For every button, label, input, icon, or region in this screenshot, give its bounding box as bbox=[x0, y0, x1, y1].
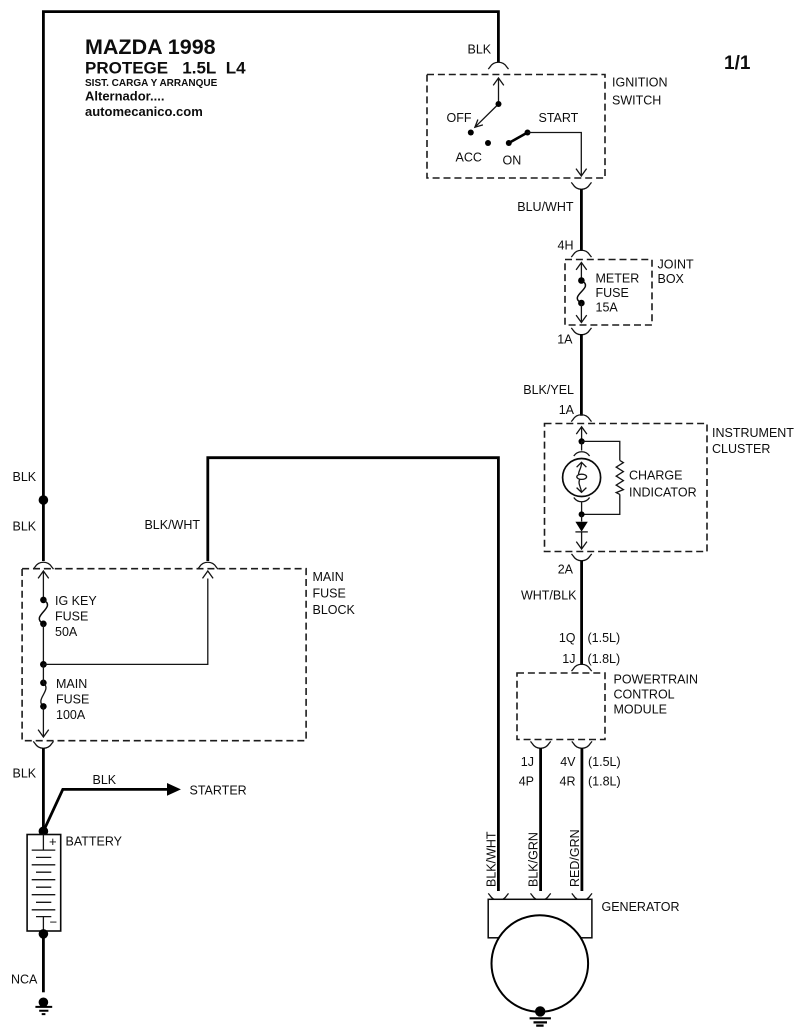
svg-text:JOINT: JOINT bbox=[658, 258, 694, 272]
meter fuse element bbox=[578, 277, 585, 284]
cluster arrow up bbox=[576, 427, 587, 442]
svg-text:RED/GRN: RED/GRN bbox=[568, 829, 582, 887]
svg-text:FUSE: FUSE bbox=[56, 693, 89, 707]
svg-text:(1.5L): (1.5L) bbox=[588, 755, 621, 769]
connector cap above joint box bbox=[571, 250, 591, 257]
connector cap above instrument cluster bbox=[571, 415, 591, 422]
svg-text:NCA: NCA bbox=[11, 973, 38, 987]
main fuse block box bbox=[22, 569, 306, 741]
bulb circle bbox=[563, 459, 601, 497]
wire branch to resistor bbox=[582, 441, 620, 514]
node junction dot fuse block bbox=[40, 661, 47, 668]
connector cup generator BLK/GRN bbox=[531, 893, 551, 900]
connector cup below PCM left bbox=[531, 741, 551, 748]
connector cup below fuse block bbox=[33, 741, 53, 748]
svg-text:IG KEY: IG KEY bbox=[55, 594, 97, 608]
svg-text:2A: 2A bbox=[558, 563, 574, 577]
diode bbox=[581, 514, 583, 521]
ground generator bbox=[535, 1006, 545, 1016]
svg-text:(1.8L): (1.8L) bbox=[588, 775, 621, 789]
node junction dot on left BLK wire bbox=[39, 495, 49, 505]
connector cap above fuse block right bbox=[198, 562, 218, 569]
switch blade ON to START bbox=[509, 133, 528, 144]
wire BLK from ignition switch around top-left down to main fuse block bbox=[43, 12, 498, 561]
wire to starter with arrow bbox=[43, 789, 168, 831]
connector cap above fuse block left bbox=[33, 562, 53, 569]
svg-text:OFF: OFF bbox=[447, 111, 472, 125]
connector cap above ignition switch bbox=[488, 62, 508, 69]
joint box arrow up bbox=[576, 263, 587, 281]
svg-text:START: START bbox=[539, 111, 579, 125]
contact dot ACC bbox=[485, 140, 491, 146]
svg-text:+: + bbox=[49, 834, 57, 849]
svg-text:MAIN: MAIN bbox=[56, 677, 87, 691]
svg-text:automecanico.com: automecanico.com bbox=[85, 104, 203, 119]
svg-text:1A: 1A bbox=[557, 333, 573, 347]
svg-text:GENERATOR: GENERATOR bbox=[602, 900, 680, 914]
connector cup below PCM right bbox=[572, 741, 592, 748]
bulb filament bbox=[577, 462, 587, 492]
joint box bbox=[565, 260, 652, 326]
wire BLK/WHT from fuse block to generator bbox=[208, 458, 499, 891]
wire BLK/YEL bbox=[580, 334, 583, 416]
svg-text:CONTROL: CONTROL bbox=[614, 688, 675, 702]
branch to BLK/WHT output bbox=[43, 571, 213, 664]
svg-text:1J: 1J bbox=[562, 652, 575, 666]
svg-text:SWITCH: SWITCH bbox=[612, 94, 661, 108]
svg-text:BOX: BOX bbox=[658, 272, 685, 286]
svg-text:MAIN: MAIN bbox=[313, 570, 344, 584]
battery internal plates bbox=[32, 835, 56, 932]
joint box arrow down bbox=[576, 303, 587, 323]
ig key fuse element bbox=[40, 597, 47, 604]
contact dot START bbox=[525, 130, 531, 136]
svg-text:4P: 4P bbox=[519, 775, 534, 789]
bulb top lead and socket cap bbox=[574, 441, 590, 456]
svg-text:FUSE: FUSE bbox=[55, 610, 88, 624]
cluster arrow down bbox=[576, 532, 587, 549]
svg-text:SIST. CARGA Y ARRANQUE: SIST. CARGA Y ARRANQUE bbox=[85, 78, 218, 89]
svg-text:BLK/YEL: BLK/YEL bbox=[523, 383, 574, 397]
generator circle bbox=[492, 915, 589, 1012]
svg-text:FUSE: FUSE bbox=[596, 286, 629, 300]
fuse block arrow up left bbox=[38, 571, 49, 600]
bulb bottom socket cup bbox=[574, 498, 590, 514]
connector cup below joint box bbox=[571, 328, 591, 335]
wire START to box bottom with arrow bbox=[528, 133, 587, 177]
svg-text:ACC: ACC bbox=[456, 151, 482, 165]
svg-text:BLK: BLK bbox=[93, 773, 117, 787]
svg-text:IGNITION: IGNITION bbox=[612, 76, 668, 90]
svg-text:Alternador....: Alternador.... bbox=[85, 89, 164, 104]
node junction dot battery plus bbox=[39, 827, 49, 837]
svg-text:INDICATOR: INDICATOR bbox=[629, 486, 697, 500]
connector cup generator RED/GRN bbox=[572, 893, 592, 900]
battery box bbox=[27, 835, 61, 932]
generator box bbox=[488, 899, 592, 938]
svg-text:BLU/WHT: BLU/WHT bbox=[517, 200, 574, 214]
contact dot OFF bbox=[468, 130, 474, 136]
svg-text:BLK: BLK bbox=[13, 470, 37, 484]
wire BLU/WHT bbox=[580, 189, 583, 251]
svg-text:BLK: BLK bbox=[13, 767, 37, 781]
svg-text:BLK: BLK bbox=[13, 520, 37, 534]
svg-text:(1.8L): (1.8L) bbox=[588, 652, 621, 666]
ignition switch arrow up bbox=[493, 78, 504, 104]
instrument cluster box bbox=[545, 424, 708, 552]
node junction dot bottom of charge indicator bbox=[579, 511, 585, 517]
svg-text:PROTEGE 1.5L L4: PROTEGE 1.5L L4 bbox=[85, 59, 246, 78]
svg-text:STARTER: STARTER bbox=[190, 784, 247, 798]
svg-text:1J: 1J bbox=[521, 755, 534, 769]
main fuse element bbox=[40, 680, 47, 687]
connector cup generator BLK/WHT bbox=[488, 893, 508, 900]
svg-text:BLK: BLK bbox=[468, 43, 492, 57]
node junction dot top of charge indicator bbox=[579, 438, 585, 444]
svg-text:1/1: 1/1 bbox=[724, 53, 751, 74]
svg-text:4H: 4H bbox=[558, 239, 574, 253]
starter arrowhead bbox=[167, 783, 181, 796]
wire BLK/GRN from PCM to generator bbox=[539, 748, 542, 891]
svg-text:FUSE: FUSE bbox=[313, 587, 346, 601]
fuse block arrow down bbox=[38, 706, 49, 737]
svg-text:BLK/WHT: BLK/WHT bbox=[485, 831, 499, 887]
svg-text:WHT/BLK: WHT/BLK bbox=[521, 589, 577, 603]
node junction dot battery minus bbox=[39, 929, 49, 939]
wire WHT/BLK bbox=[580, 561, 583, 666]
svg-text:BLK/WHT: BLK/WHT bbox=[144, 518, 200, 532]
svg-text:1Q: 1Q bbox=[559, 631, 576, 645]
svg-text:−: − bbox=[50, 915, 58, 930]
ignition switch box bbox=[427, 75, 605, 179]
powertrain control module box bbox=[517, 673, 605, 740]
svg-text:CLUSTER: CLUSTER bbox=[712, 442, 770, 456]
svg-text:100A: 100A bbox=[56, 708, 86, 722]
svg-text:4V: 4V bbox=[560, 755, 576, 769]
svg-text:MODULE: MODULE bbox=[614, 703, 667, 717]
svg-text:INSTRUMENT: INSTRUMENT bbox=[712, 426, 794, 440]
svg-text:BATTERY: BATTERY bbox=[66, 835, 123, 849]
svg-text:50A: 50A bbox=[55, 625, 78, 639]
svg-text:BLK/GRN: BLK/GRN bbox=[526, 832, 540, 887]
ignition switch movable contact to OFF bbox=[475, 104, 499, 127]
svg-text:CHARGE: CHARGE bbox=[629, 469, 682, 483]
wire BLK to battery bbox=[42, 748, 45, 831]
svg-text:1A: 1A bbox=[559, 403, 575, 417]
wire NCA to ground bbox=[42, 934, 45, 992]
svg-text:METER: METER bbox=[596, 272, 640, 286]
svg-text:(1.5L): (1.5L) bbox=[588, 631, 621, 645]
svg-text:POWERTRAIN: POWERTRAIN bbox=[614, 673, 699, 687]
svg-text:BLOCK: BLOCK bbox=[313, 603, 356, 617]
svg-text:15A: 15A bbox=[596, 301, 619, 315]
connector cup below instrument cluster bbox=[572, 554, 592, 561]
contact dot ON bbox=[506, 140, 512, 146]
wire fuse mid section bbox=[42, 624, 44, 665]
svg-text:ON: ON bbox=[503, 154, 522, 168]
wire RED/GRN from PCM to generator bbox=[581, 748, 584, 891]
connector cap above PCM bbox=[572, 664, 592, 671]
svg-text:4R: 4R bbox=[560, 775, 576, 789]
resistor zigzag charge indicator bbox=[616, 460, 623, 494]
connector cup below ignition switch bbox=[571, 182, 591, 189]
svg-text:MAZDA 1998: MAZDA 1998 bbox=[85, 35, 216, 59]
ground battery bbox=[39, 998, 49, 1008]
